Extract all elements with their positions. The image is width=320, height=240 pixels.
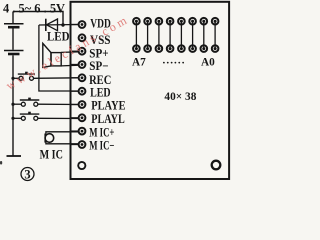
- svg-text:3: 3: [24, 168, 30, 182]
- wire LED anode to VDD pin: [39, 24, 79, 27]
- svg-text:A0: A0: [201, 55, 215, 69]
- jumper column A0: [212, 18, 219, 52]
- mounting hole left: [78, 162, 85, 169]
- svg-text:LED: LED: [90, 85, 111, 99]
- microphone MIC: [45, 132, 79, 144]
- jumper column A5: [156, 18, 163, 52]
- svg-text:M IC+: M IC+: [89, 125, 114, 139]
- jumper column A3: [178, 18, 185, 52]
- jumper column A6: [144, 18, 151, 52]
- pad pin LED: [71, 88, 86, 95]
- pushbutton switch PLAYL: [11, 112, 79, 121]
- svg-text:......: ......: [163, 55, 186, 67]
- wire LED cathode to LED pin: [39, 25, 79, 91]
- svg-text:40× 38: 40× 38: [164, 91, 196, 103]
- pad pin PLAYL: [71, 114, 86, 121]
- node junction diode/VDD: [61, 23, 64, 26]
- module board outline: [71, 2, 230, 179]
- pushbutton switch REC: [11, 72, 79, 81]
- pad pin PLAYE: [71, 101, 86, 108]
- LED diode: [46, 19, 58, 31]
- pad pin SP+: [71, 48, 86, 55]
- battery GB: [4, 12, 24, 157]
- svg-text:M IC: M IC: [40, 147, 63, 161]
- pad pin M IC−: [71, 141, 86, 148]
- svg-text:M IC−: M IC−: [89, 139, 114, 153]
- svg-text:SP−: SP−: [89, 59, 108, 73]
- pad pin M IC+: [71, 128, 86, 135]
- svg-text:PLAYE: PLAYE: [91, 99, 125, 113]
- wire speaker to SP+: [61, 51, 79, 54]
- jumper column A7: [133, 18, 140, 52]
- edge smudge: [0, 161, 2, 165]
- mounting hole right: [212, 161, 221, 170]
- wire battery+ to diode node: [13, 12, 63, 26]
- svg-text:A7: A7: [132, 55, 146, 69]
- pushbutton switch PLAYE: [11, 98, 79, 107]
- jumper column A4: [167, 18, 174, 52]
- pad pin REC: [71, 74, 86, 81]
- speaker BL: [43, 43, 61, 67]
- pad pin VSS: [79, 34, 86, 41]
- svg-text:PLAYL: PLAYL: [91, 112, 125, 126]
- wire speaker to SP-: [61, 64, 79, 67]
- jumper column A2: [189, 18, 196, 52]
- pad pin VDD: [71, 21, 86, 28]
- pad pin SP−: [71, 61, 86, 68]
- svg-text:LED: LED: [47, 29, 70, 43]
- jumper column A1: [201, 18, 208, 52]
- figure number 3: [21, 168, 34, 182]
